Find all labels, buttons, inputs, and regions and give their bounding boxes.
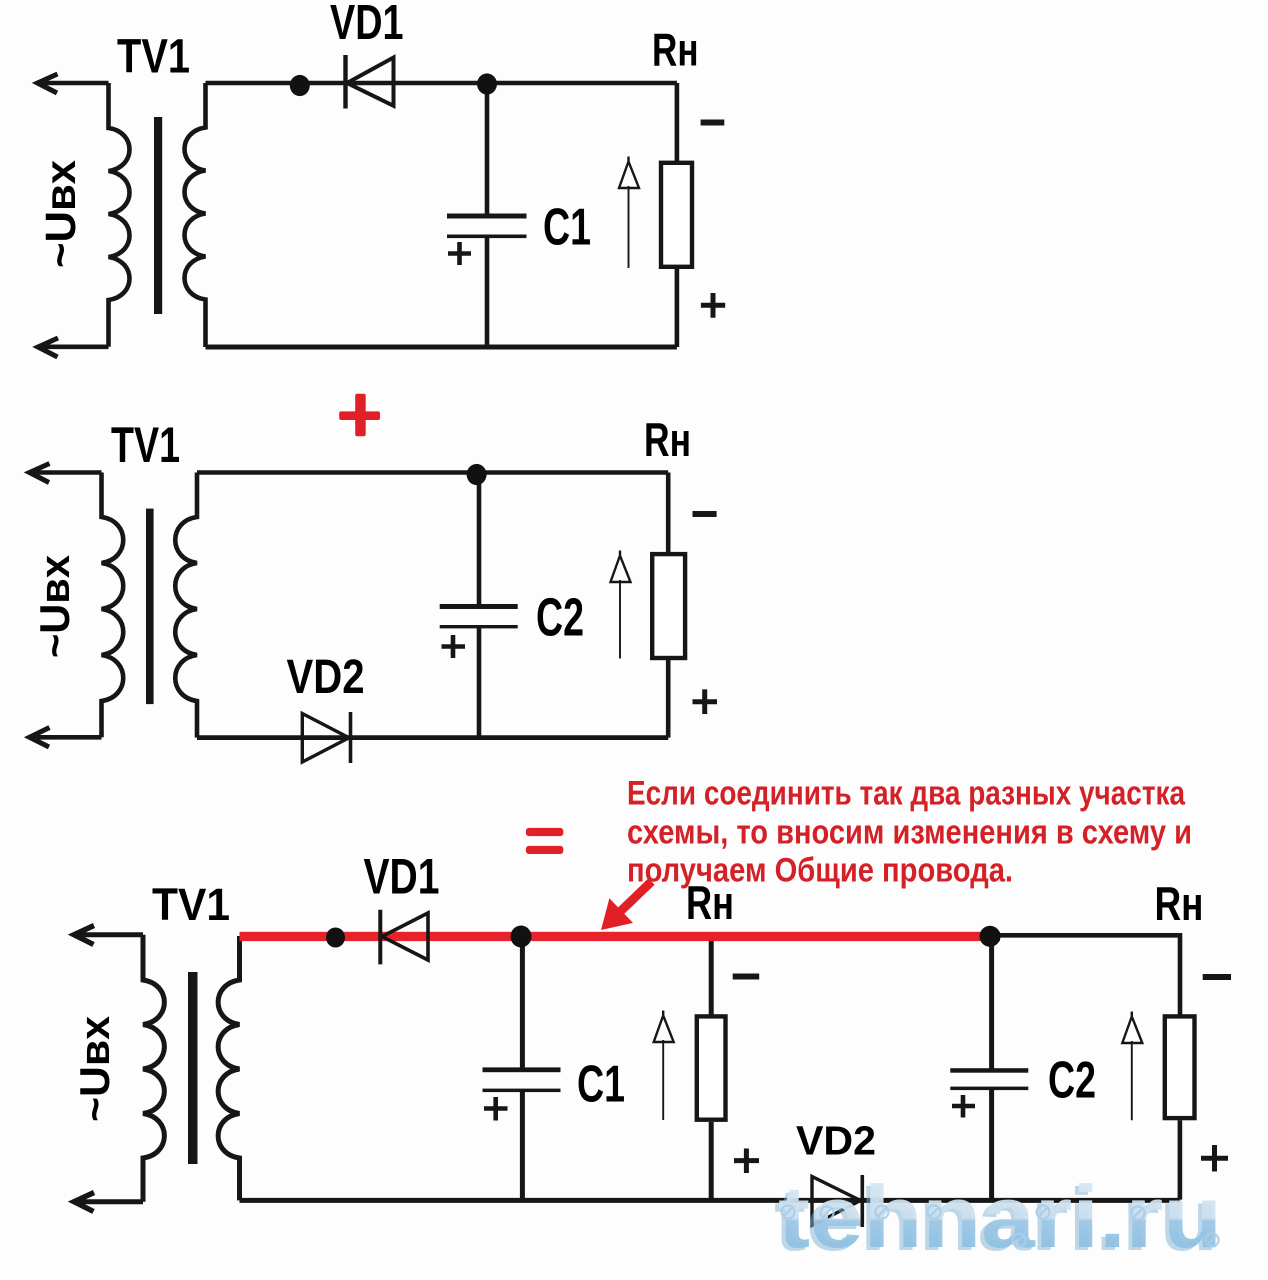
input arrow bottom 2 <box>30 728 50 748</box>
svg-text:TV1: TV1 <box>117 31 190 84</box>
node dot A red wire <box>326 928 345 948</box>
wire input bottom 3 <box>75 1199 144 1204</box>
load RнB lead bottom 3 <box>1178 1120 1183 1199</box>
svg-text:TV1: TV1 <box>152 879 230 930</box>
transformer TV1 secondary winding 1 <box>185 83 206 347</box>
transformer TV1 secondary winding 3 <box>218 936 239 1200</box>
input arrow bottom 1 <box>38 338 58 357</box>
transformer TV1 primary winding 3 <box>143 935 164 1202</box>
svg-text:Rн: Rн <box>1155 877 1204 930</box>
load Rн lead top 2 <box>666 473 671 554</box>
input arrow top 3 <box>74 926 94 945</box>
wire bottom loop 2 <box>197 735 668 740</box>
load Rн lead bottom 2 <box>666 660 671 738</box>
svg-text:схемы, то вносим изменения в с: схемы, то вносим изменения в схему и <box>627 814 1192 852</box>
capacitor C2 top lead 3 <box>989 941 994 1069</box>
diode VD1 cathode bar 3 <box>378 910 382 965</box>
capacitor C2 plate bottom <box>440 625 518 628</box>
node dot C2 junction <box>467 464 487 485</box>
capacitor C2 top lead <box>477 473 482 606</box>
capacitor C1 top lead <box>485 83 490 214</box>
capacitor C1 polarity plus <box>448 242 471 265</box>
current arrow shaft 1 <box>628 186 630 268</box>
svg-text:VD2: VD2 <box>287 651 365 704</box>
svg-text:~Uвх: ~Uвх <box>37 160 85 268</box>
load Rн lead bottom 1 <box>675 269 680 347</box>
current arrow head 1 <box>619 157 639 189</box>
resistor RнA body 3 <box>697 1016 726 1119</box>
diode VD1 cathode bar <box>343 55 347 109</box>
svg-text:VD2: VD2 <box>796 1118 876 1164</box>
svg-text:Если соединить так два разных: Если соединить так два разных участка <box>627 775 1186 813</box>
wire top secondary to load 2 <box>197 470 668 475</box>
svg-text:C2: C2 <box>536 588 584 648</box>
minus sign load 3a <box>733 974 760 980</box>
wire top right black segment <box>990 935 1180 1016</box>
load RнA lead top 3 <box>709 941 714 1016</box>
capacitor C1 plate bottom 3 <box>483 1089 561 1093</box>
red arrow annotation <box>601 878 655 930</box>
current arrow shaft 2 <box>619 580 621 659</box>
capacitor C1 polarity plus 3 <box>484 1097 508 1121</box>
svg-text:Rн: Rн <box>644 413 691 466</box>
node dot anode VD1 <box>290 75 310 96</box>
transformer TV1 core bar 2 <box>146 509 154 704</box>
plus sign load 1 <box>701 293 725 318</box>
svg-text:TV1: TV1 <box>111 417 180 473</box>
svg-text:VD1: VD1 <box>330 0 404 50</box>
CIRCUIT3 <box>74 926 1180 1212</box>
capacitor C2 plate bottom 3 <box>950 1087 1028 1091</box>
current arrow head 3a <box>654 1011 674 1043</box>
minus sign load 3b <box>1203 974 1231 980</box>
CIRCUIT2 <box>30 464 669 764</box>
svg-text:C2: C2 <box>1048 1052 1096 1110</box>
current arrow shaft 3b <box>1131 1041 1133 1120</box>
diode VD1 triangle <box>347 58 394 106</box>
current arrow head 2 <box>611 551 631 583</box>
diode VD2 cathode bar <box>349 712 353 763</box>
capacitor C2 bottom lead <box>477 627 482 738</box>
svg-text:~Uвх: ~Uвх <box>71 1015 118 1122</box>
capacitor C2 plate top 3 <box>950 1068 1028 1073</box>
capacitor C1 bottom lead 3 <box>520 1090 525 1200</box>
transformer TV1 primary winding 1 <box>109 83 130 347</box>
capacitor C1 plate top <box>447 214 527 219</box>
capacitor C2 polarity plus 3 <box>952 1095 975 1118</box>
transformer TV1 core bar 3 <box>188 972 198 1164</box>
wire input top 2 <box>30 470 102 475</box>
svg-text:получаем Общие провода.: получаем Общие провода. <box>627 852 1013 890</box>
watermark copyright circles <box>782 1206 1219 1247</box>
diode VD1 triangle 3 <box>382 913 428 960</box>
diode VD2 triangle <box>302 714 349 763</box>
diode VD2 triangle 3 <box>812 1177 861 1226</box>
current arrow head 3b <box>1122 1012 1142 1044</box>
minus sign load 2 <box>693 511 717 517</box>
wire bottom loop 3 <box>240 1198 1181 1203</box>
wire bottom loop 1 <box>206 345 677 350</box>
plus sign load 3a <box>734 1149 759 1174</box>
svg-text:Rн: Rн <box>652 24 699 76</box>
red equals sign <box>526 828 563 854</box>
diode VD2 cathode bar 3 <box>860 1175 864 1227</box>
input arrow top 2 <box>30 464 50 483</box>
node dot cathode C1 junction <box>477 73 497 94</box>
red plus between circuits <box>339 394 380 437</box>
transformer TV1 core bar 1 <box>154 117 162 314</box>
node dot C red wire end <box>980 926 1001 947</box>
capacitor C1 bottom lead <box>485 237 490 347</box>
wire top secondary to load 1 <box>206 81 677 86</box>
capacitor C2 polarity plus <box>442 635 466 658</box>
node dot B C1 junction 3 <box>511 926 532 948</box>
resistor Rн body 1 <box>661 163 692 267</box>
wire input bottom 1 <box>38 344 109 349</box>
transformer TV1 primary winding 2 <box>102 473 124 738</box>
input arrow top 1 <box>38 74 58 93</box>
capacitor C2 plate top <box>440 604 518 609</box>
capacitor C2 bottom lead 3 <box>989 1087 994 1200</box>
svg-text:C1: C1 <box>543 199 591 257</box>
capacitor C1 plate top 3 <box>483 1067 561 1072</box>
load Rн lead top 1 <box>675 83 680 162</box>
wire input bottom 2 <box>30 735 102 740</box>
wire input top 1 <box>38 81 109 86</box>
plus sign load 3b <box>1201 1145 1228 1172</box>
transformer TV1 secondary winding 2 <box>175 473 197 738</box>
svg-text:VD1: VD1 <box>364 849 440 905</box>
load RнA lead bottom 3 <box>709 1122 714 1200</box>
capacitor C1 top lead 3 <box>520 941 525 1068</box>
current arrow shaft 3a <box>662 1040 664 1120</box>
capacitor C1 plate bottom <box>447 235 527 239</box>
resistor Rн body 2 <box>652 554 685 658</box>
svg-text:tehnari.ru: tehnari.ru <box>778 1167 1222 1266</box>
red common wire <box>240 932 1001 941</box>
svg-text:~Uвх: ~Uвх <box>31 554 78 658</box>
CIRCUIT1 <box>38 55 677 357</box>
input arrow bottom 3 <box>74 1193 94 1212</box>
resistor RнB body 3 <box>1165 1016 1195 1118</box>
wire input top 3 <box>75 932 144 937</box>
minus sign load 1 <box>701 120 725 126</box>
plus sign load 2 <box>693 689 718 714</box>
svg-text:C1: C1 <box>577 1056 625 1114</box>
